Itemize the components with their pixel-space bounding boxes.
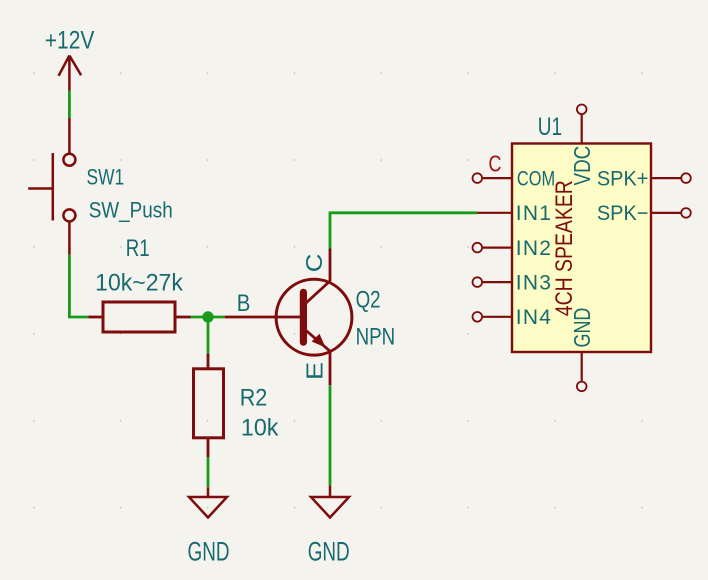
pin IN2 [473,237,553,260]
svg-text:IN1: IN1 [516,202,552,225]
wire [330,213,477,249]
pin SPK+ [597,167,691,191]
svg-text:R2: R2 [240,383,268,410]
svg-text:E: E [302,362,328,380]
svg-text:GND: GND [570,308,596,348]
pin SPK- [597,202,691,226]
junction node B [202,311,213,322]
svg-text:SPK−: SPK− [597,202,649,226]
svg-text:IN4: IN4 [516,306,552,329]
wire [207,457,210,487]
svg-text:IN3: IN3 [516,271,552,294]
svg-text:Q2: Q2 [356,287,381,314]
svg-text:GND: GND [188,536,230,566]
svg-text:IN2: IN2 [516,237,552,260]
wire [329,385,332,485]
svg-text:R1: R1 [126,235,150,262]
svg-text:+12V: +12V [45,26,95,54]
svg-text:SW_Push: SW_Push [89,198,173,223]
svg-text:NPN: NPN [356,323,396,350]
resistor R2 [194,354,224,457]
pin IN3 [473,271,553,294]
pin VDC [570,105,595,186]
svg-text:GND: GND [308,536,350,566]
pin IN1 [477,202,552,225]
pin GND of U1 [570,308,596,392]
pin IN4 [473,306,553,329]
transistor Q2 [225,249,352,386]
svg-text:C: C [302,254,327,273]
wire [68,91,71,119]
svg-text:SW1: SW1 [87,166,125,190]
resistor R1 [88,302,190,332]
power symbol +12V [59,56,82,91]
svg-text:VDC: VDC [570,146,595,186]
wire [191,316,225,319]
svg-text:10k~27k: 10k~27k [95,269,183,296]
pin COM [473,151,556,189]
wire [207,317,210,354]
switch SW1 [28,118,75,255]
svg-text:COM: COM [517,166,555,189]
svg-text:B: B [237,289,251,316]
wire [69,255,88,317]
svg-text:10k: 10k [241,415,279,441]
ground [311,485,349,517]
IC U1 [512,144,651,353]
svg-text:U1: U1 [538,113,562,141]
ground [189,487,227,517]
svg-text:C: C [489,151,502,177]
svg-text:4CH SPEAKER: 4CH SPEAKER [550,180,577,316]
svg-text:SPK+: SPK+ [597,167,649,191]
